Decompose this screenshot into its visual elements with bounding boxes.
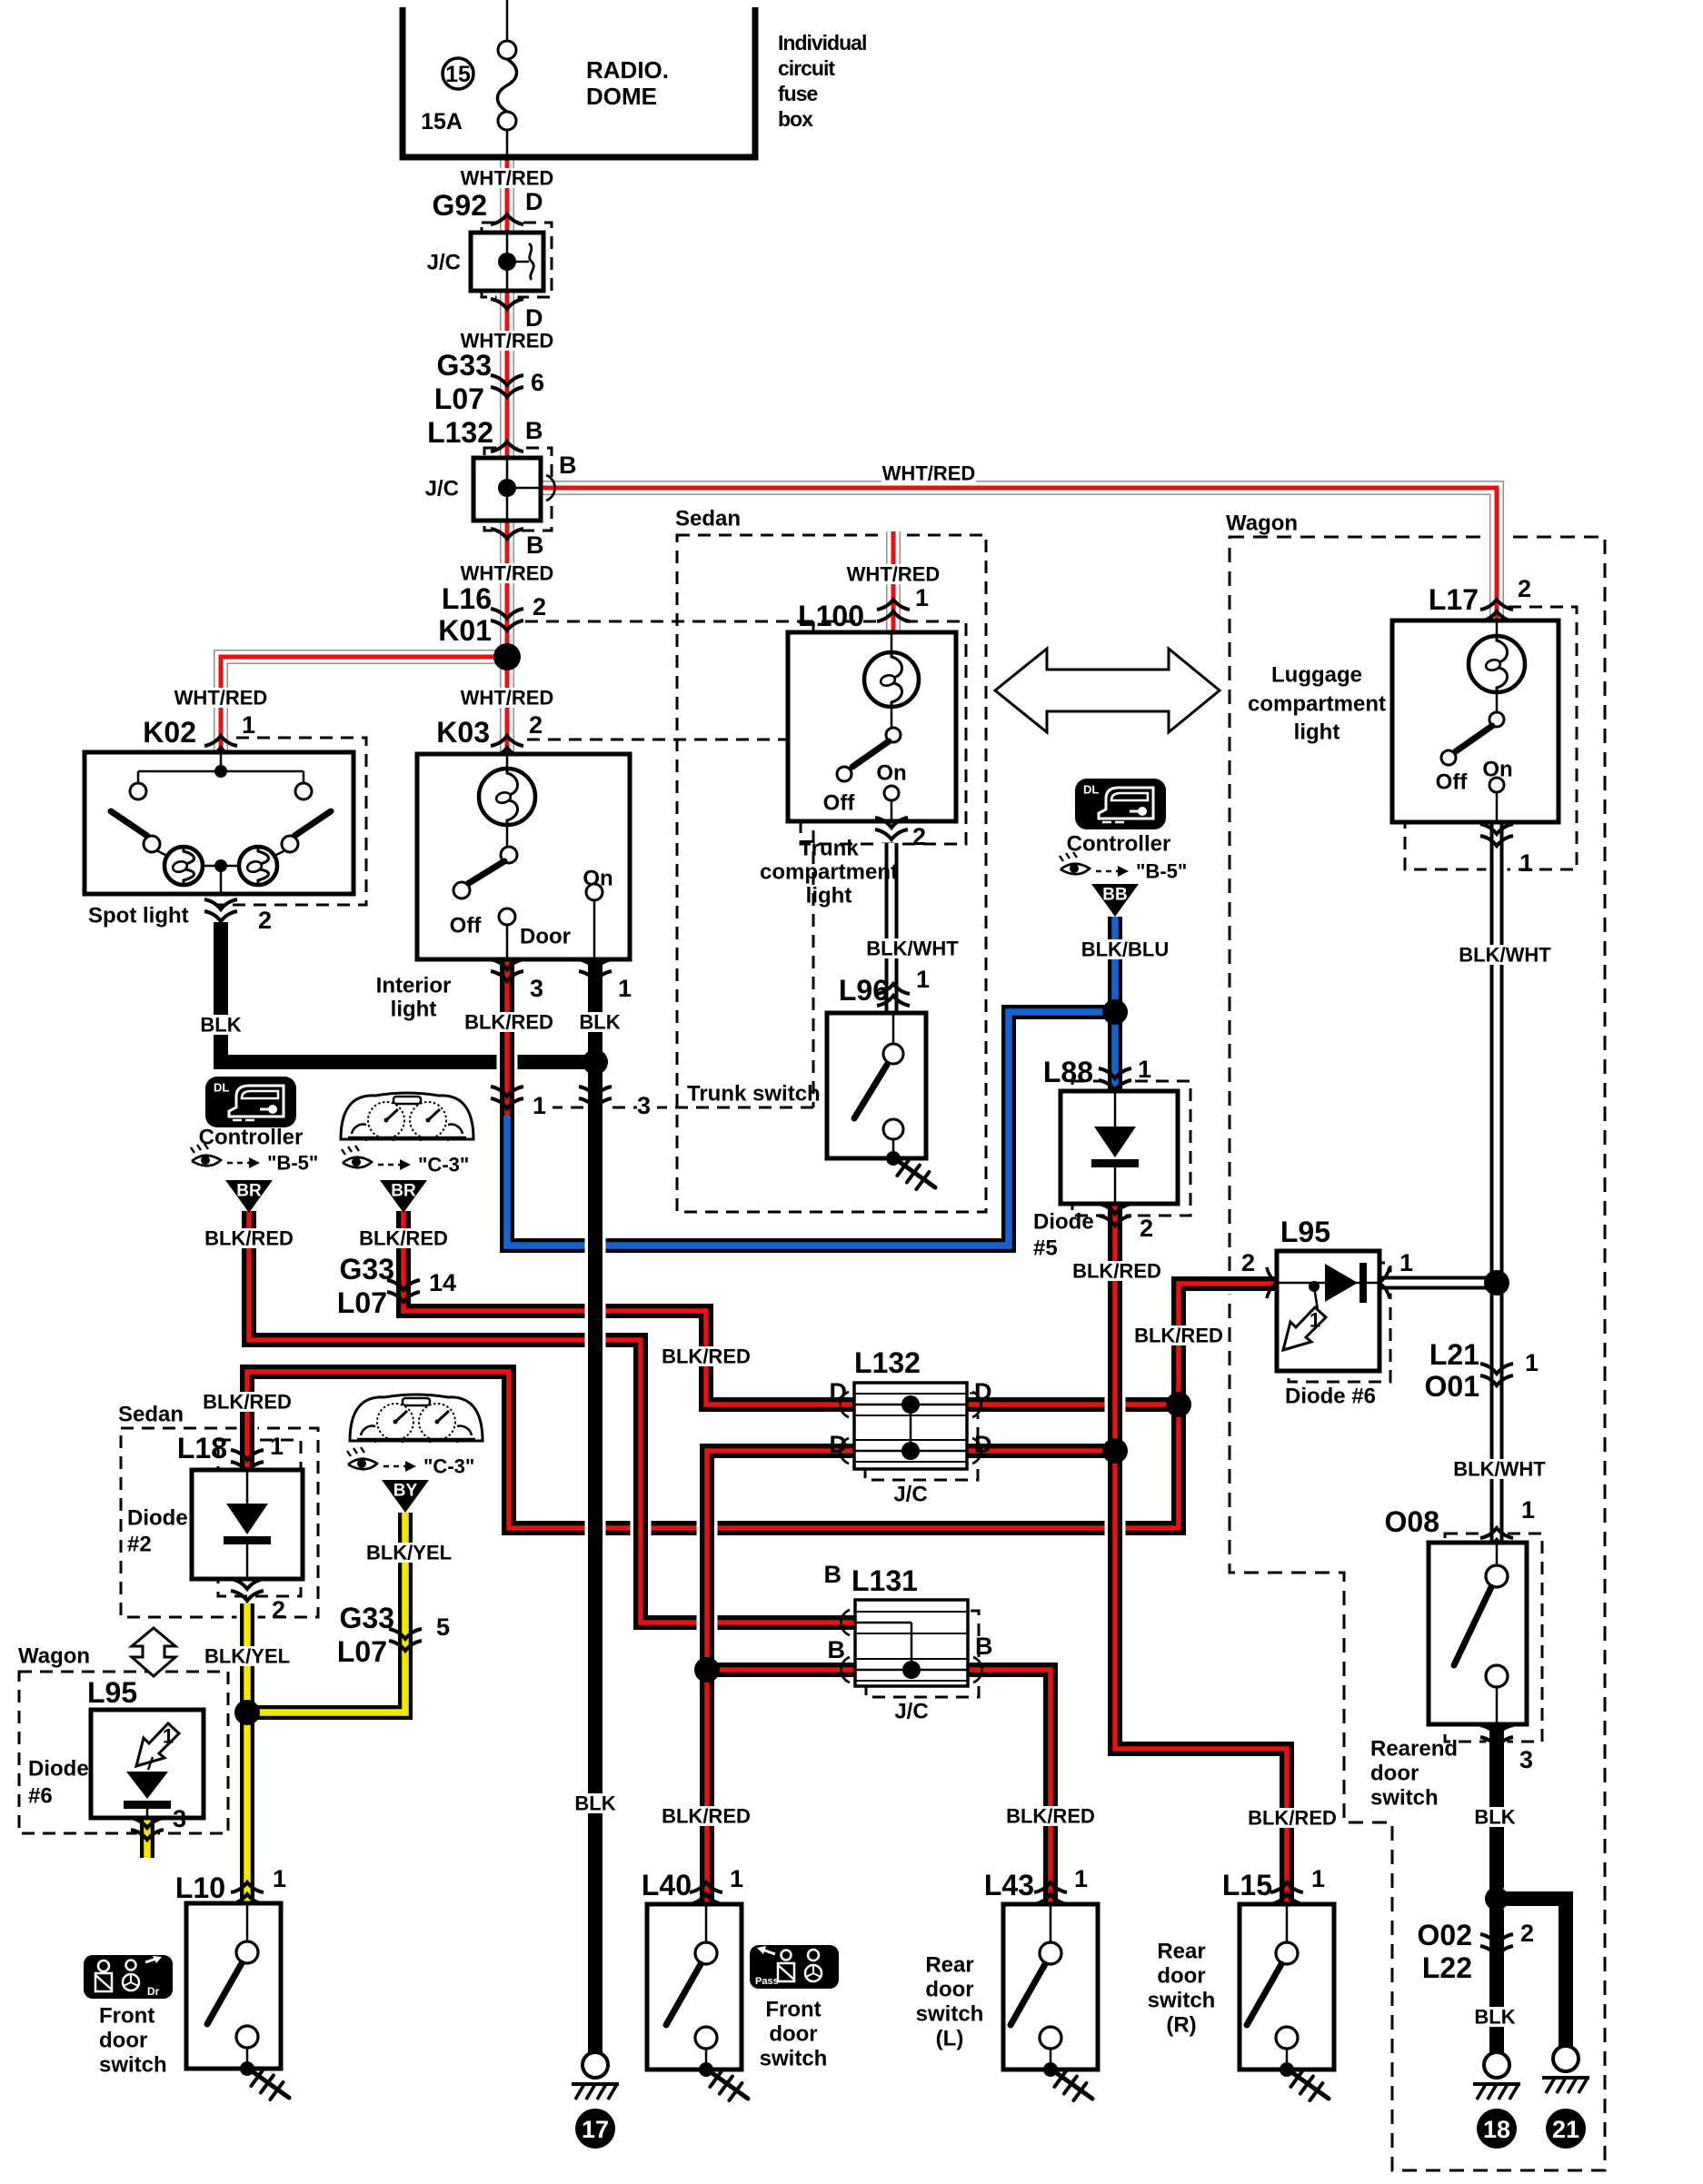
label BLK/RED <box>204 1228 294 1248</box>
svg-text:L17: L17 <box>1429 583 1479 616</box>
svg-text:"B-5": "B-5" <box>1136 860 1187 883</box>
svg-text:Interior: Interior <box>376 974 452 998</box>
svg-text:Diode: Diode <box>1033 1210 1094 1235</box>
svg-text:WHT/RED: WHT/RED <box>461 562 554 585</box>
svg-text:DL: DL <box>214 1081 229 1095</box>
svg-text:Spot light: Spot light <box>88 904 189 928</box>
svg-text:B: B <box>559 452 577 479</box>
label WHT/RED on line to L17 <box>881 463 976 483</box>
svg-text:Sedan: Sedan <box>118 1403 184 1427</box>
icon combination meter 2 <box>350 1395 483 1441</box>
connector chevrons L100 pin 2 <box>875 818 908 828</box>
wire BLK/WHT L17 pin1 to O08 <box>1487 822 1508 1543</box>
wire BLK O08 pin3 to ground 18 <box>1487 1724 1508 2052</box>
Sedan/Wagon vertical double arrow <box>132 1628 175 1676</box>
ground 17 <box>583 2052 608 2078</box>
svg-text:G33: G33 <box>340 1253 394 1286</box>
node BLK/RED junction L132 upper row/L18 branch <box>1166 1392 1191 1417</box>
svg-text:B: B <box>525 417 543 444</box>
svg-text:Rear: Rear <box>1157 1940 1205 1964</box>
svg-text:Luggage: Luggage <box>1271 663 1362 688</box>
spot light lamp right <box>239 847 277 885</box>
label BLK/RED <box>661 1346 752 1366</box>
open arrow with 1 (L95 right) <box>1283 1307 1326 1350</box>
svg-text:Rear: Rear <box>925 1953 973 1978</box>
svg-text:J/C: J/C <box>425 477 459 501</box>
svg-text:L16: L16 <box>442 582 492 615</box>
svg-text:B: B <box>526 531 544 559</box>
rear door switch L43 box <box>1003 1904 1098 2070</box>
svg-text:1: 1 <box>1311 1865 1325 1892</box>
wire BLK/WHT L100 pin2 to L96 trunk switch <box>881 843 902 1013</box>
svg-text:switch: switch <box>916 2002 984 2027</box>
individual circuit fuse box outline <box>403 7 755 157</box>
spot light right switch blade <box>294 811 331 836</box>
connector chevrons harness pin 1 <box>491 1087 523 1097</box>
svg-text:BLK/WHT: BLK/WHT <box>1459 944 1551 967</box>
connector chevrons O08 pin 3 <box>1480 1725 1513 1735</box>
ground 18 <box>1484 2052 1509 2078</box>
wire BLK/RED L132 middle J/C upper right pin D <box>967 1395 1179 1415</box>
svg-text:1: 1 <box>1138 1056 1151 1083</box>
svg-text:BY: BY <box>393 1482 418 1501</box>
wire BLK/RED K03 pin3 <box>497 959 518 1116</box>
svg-text:Wagon: Wagon <box>1226 511 1298 536</box>
wire BLK branch to ground 21 <box>1497 1899 1566 2046</box>
svg-text:#5: #5 <box>1033 1236 1058 1261</box>
wire WHT/RED branch to K02 <box>221 657 507 752</box>
svg-text:1: 1 <box>915 584 929 611</box>
connector chevron G92 D <box>491 214 523 224</box>
svg-text:BLK/RED: BLK/RED <box>204 1227 294 1250</box>
svg-text:L95: L95 <box>1280 1216 1330 1248</box>
svg-text:2: 2 <box>912 823 926 850</box>
diode #2 symbol <box>226 1504 268 1534</box>
svg-text:BLK/RED: BLK/RED <box>1134 1325 1223 1347</box>
svg-text:Off: Off <box>450 914 483 938</box>
connector chevrons L43 pin 1 <box>1034 1882 1067 1892</box>
wire WHT/RED feed to L100 trunk light <box>883 531 904 632</box>
diode #6 L95 wagon box <box>91 1710 204 1818</box>
svg-text:BB: BB <box>1102 886 1127 905</box>
interior light K03 box <box>417 754 630 959</box>
rear door switch L15 box <box>1240 1904 1334 2070</box>
diode #6 L95 right box <box>1277 1251 1379 1371</box>
connector chevrons L17 pin 2 <box>1480 600 1513 610</box>
node BLK junction K02/K03 grounds <box>583 1049 608 1075</box>
svg-text:3: 3 <box>530 975 543 1002</box>
svg-text:21: 21 <box>1552 2116 1579 2143</box>
connector chevrons G33/L07 pin 6 <box>491 375 523 385</box>
Wagon (diode #6) dashed box <box>19 1672 228 1833</box>
label WHT/RED <box>174 688 268 708</box>
svg-text:1: 1 <box>273 1865 286 1892</box>
svg-text:Trunk: Trunk <box>799 837 859 861</box>
label WHT/RED <box>460 688 554 708</box>
connector L100 dashed outline <box>801 621 966 844</box>
connector chevrons L15 pin 1 <box>1270 1882 1303 1892</box>
connector L16/K01-K03 dashed outline <box>525 620 813 623</box>
svg-text:L18: L18 <box>177 1432 227 1464</box>
L43 switch blade <box>1011 1964 1045 2025</box>
label BLK/WHT <box>1455 945 1555 965</box>
svg-text:#6: #6 <box>28 1784 53 1809</box>
svg-text:L132: L132 <box>854 1346 921 1379</box>
label BLK/YEL <box>364 1543 454 1563</box>
ground 21 <box>1553 2046 1579 2071</box>
svg-text:2: 2 <box>258 907 272 934</box>
trunk light lamp <box>864 652 919 707</box>
svg-text:door: door <box>99 2029 147 2053</box>
diode #6 wagon symbol <box>126 1772 168 1799</box>
svg-text:light: light <box>1294 720 1340 745</box>
connector chevrons O02/L22 pin 2 <box>1480 1934 1513 1944</box>
label BLK/RED <box>202 1392 293 1412</box>
svg-text:BLK/YEL: BLK/YEL <box>204 1645 290 1668</box>
wire BLK K02 pin2 to junction <box>221 922 595 1062</box>
svg-text:(L): (L) <box>936 2027 964 2051</box>
svg-text:1: 1 <box>1521 1496 1535 1524</box>
fuse 15 (15A RADIO. DOME) <box>506 0 509 41</box>
connector chevron G92 D out <box>491 299 523 309</box>
label WHT/RED <box>460 563 554 583</box>
svg-text:2: 2 <box>1241 1249 1255 1276</box>
connector chevrons L40 pin 1 <box>690 1882 722 1892</box>
label BLK/RED <box>1071 1261 1162 1281</box>
svg-text:BLK/RED: BLK/RED <box>1248 1807 1337 1830</box>
trunk light switch blade <box>852 741 889 767</box>
label BLK/WHT <box>862 938 962 958</box>
trunk compartment light L100 box <box>788 632 956 821</box>
svg-text:L07: L07 <box>434 382 484 415</box>
spot light left switch blade <box>111 811 147 836</box>
svg-text:L21: L21 <box>1429 1338 1479 1371</box>
connector chevrons L18 pin 1 <box>231 1450 264 1460</box>
eye reference C-3 <box>343 1157 372 1168</box>
svg-text:D: D <box>974 1431 992 1458</box>
svg-text:Door: Door <box>520 925 571 949</box>
svg-text:L07: L07 <box>337 1286 387 1319</box>
svg-text:1: 1 <box>1074 1865 1088 1892</box>
svg-text:Front: Front <box>765 1998 821 2022</box>
svg-text:BLK/RED: BLK/RED <box>203 1391 292 1414</box>
svg-text:switch: switch <box>99 2053 167 2078</box>
svg-text:L96: L96 <box>839 974 889 1007</box>
ground chassis L96 <box>897 1160 935 1187</box>
svg-text:K01: K01 <box>438 614 492 647</box>
wire BLK/RED L88 pin2 to L15 <box>1115 1204 1287 1904</box>
svg-text:Dr: Dr <box>147 1985 160 1998</box>
label WHT/RED <box>846 564 941 584</box>
connector BY triangle <box>382 1480 429 1513</box>
icon front door switch driver <box>84 1955 173 1999</box>
front door switch L10 box <box>186 1903 281 2069</box>
svg-text:L07: L07 <box>337 1635 387 1668</box>
label WHT/RED <box>460 331 554 351</box>
connector chevrons O08 pin 1 <box>1480 1528 1513 1538</box>
svg-text:WHT/RED: WHT/RED <box>882 462 976 485</box>
svg-text:18: 18 <box>1483 2116 1510 2143</box>
svg-text:(R): (R) <box>1166 2013 1196 2038</box>
label BLK/BLU <box>1077 939 1173 959</box>
svg-text:D: D <box>525 304 543 332</box>
svg-text:3: 3 <box>1519 1746 1533 1773</box>
label BLK/YEL <box>202 1646 293 1666</box>
junction connector L131 J/C box <box>855 1600 968 1686</box>
svg-text:O08: O08 <box>1385 1505 1439 1538</box>
svg-text:L132: L132 <box>427 416 493 449</box>
svg-text:Diode: Diode <box>28 1757 89 1782</box>
trunk switch blade <box>854 1065 887 1118</box>
L15 switch blade <box>1247 1964 1281 2025</box>
icon front door switch passenger <box>750 1945 839 1989</box>
svg-text:1: 1 <box>163 1725 174 1748</box>
svg-text:BLK: BLK <box>1474 2006 1515 2029</box>
svg-text:door: door <box>925 1978 973 2002</box>
svg-text:J/C: J/C <box>427 251 461 275</box>
connector O08 dashed outline <box>1445 1534 1542 1742</box>
wire BLK/RED L132 middle J/C lower right pin D <box>967 1441 1115 1462</box>
junction connector G92 J/C box <box>471 233 543 291</box>
svg-text:BLK: BLK <box>579 1011 620 1034</box>
luggage light switch blade <box>1456 726 1492 751</box>
node BLK/RED junction L40/L131 <box>694 1657 720 1683</box>
connector chevrons harness pin 3 <box>579 1087 612 1097</box>
svg-text:K03: K03 <box>436 716 490 749</box>
svg-text:Off: Off <box>823 791 856 816</box>
ground number 18 <box>1477 2109 1517 2149</box>
svg-text:2: 2 <box>1518 575 1531 602</box>
svg-text:L131: L131 <box>851 1564 918 1597</box>
svg-text:1: 1 <box>270 1433 284 1460</box>
label BLK/RED <box>1247 1808 1338 1828</box>
svg-text:B: B <box>975 1633 993 1660</box>
svg-text:14: 14 <box>429 1269 456 1296</box>
connector L132 dashed outline (top J/C) <box>484 448 552 531</box>
svg-text:Trunk switch: Trunk switch <box>687 1082 821 1107</box>
svg-text:1: 1 <box>1519 849 1533 877</box>
svg-text:Controller: Controller <box>199 1126 304 1150</box>
icon controller (door lock) <box>1075 779 1166 829</box>
svg-text:17: 17 <box>582 2116 609 2143</box>
node WHT/RED junction L16/K01 <box>493 643 521 670</box>
front door switch L40 box <box>647 1904 742 2070</box>
svg-text:Off: Off <box>1436 770 1469 795</box>
ground chassis L40 <box>710 2071 748 2099</box>
svg-text:1: 1 <box>242 711 255 739</box>
connector chevrons K03 pin 1 <box>579 959 612 969</box>
L10 switch blade <box>207 1963 242 2024</box>
diode #5 symbol <box>1094 1127 1136 1157</box>
svg-text:D: D <box>525 188 543 215</box>
svg-text:2: 2 <box>529 711 543 739</box>
Wagon section dashed outline <box>1230 537 1605 2170</box>
contact On <box>586 884 603 900</box>
label BLK <box>573 1793 618 1813</box>
svg-text:BLK: BLK <box>574 1792 615 1815</box>
connector chevrons G33/L07 pin 5 <box>389 1629 422 1639</box>
svg-text:switch: switch <box>1148 1989 1216 2013</box>
svg-text:WHT/RED: WHT/RED <box>174 687 268 710</box>
svg-text:light: light <box>806 884 852 908</box>
svg-text:3: 3 <box>637 1092 651 1119</box>
svg-text:L95: L95 <box>87 1676 137 1709</box>
ground chassis L43 <box>1054 2071 1092 2099</box>
ground chassis L10 <box>251 2070 289 2098</box>
svg-text:"B-5": "B-5" <box>267 1152 318 1175</box>
svg-text:switch: switch <box>760 2047 828 2071</box>
eye reference B-5 left <box>192 1156 221 1166</box>
junction connector L132 J/C box (top) <box>473 458 541 521</box>
svg-text:BLK/RED: BLK/RED <box>359 1227 448 1250</box>
connector BB triangle <box>1091 884 1139 917</box>
label BLK/RED <box>463 1012 554 1032</box>
connector BR triangle left <box>225 1180 273 1213</box>
svg-text:1: 1 <box>730 1865 743 1892</box>
icon combination meter <box>341 1093 473 1139</box>
wire BLK/YEL L95 diode#6 pin3 stub <box>137 1818 158 1858</box>
ground number 21 <box>1546 2109 1586 2149</box>
svg-text:1: 1 <box>533 1092 546 1119</box>
svg-text:G33: G33 <box>437 349 492 382</box>
Sedan (diode #2) dashed box <box>121 1428 318 1617</box>
svg-text:1: 1 <box>1310 1309 1320 1332</box>
svg-text:#2: #2 <box>127 1533 152 1557</box>
svg-text:2: 2 <box>533 593 546 620</box>
svg-text:L15: L15 <box>1222 1869 1272 1901</box>
Sedan/Wagon horizontal double arrow <box>995 649 1220 732</box>
connector chevrons L96 pin 1 <box>877 984 910 994</box>
label WHT/RED <box>460 168 554 188</box>
svg-text:door: door <box>1370 1762 1419 1786</box>
wire BLK/YEL meter C-3 via G33/L07-5 <box>247 1513 405 1712</box>
svg-text:BLK/RED: BLK/RED <box>662 1805 751 1828</box>
svg-text:compartment: compartment <box>760 860 898 885</box>
label BLK <box>577 1012 622 1032</box>
svg-text:J/C: J/C <box>894 1700 928 1724</box>
L40 switch blade <box>666 1964 701 2025</box>
svg-text:BLK/BLU: BLK/BLU <box>1081 938 1170 961</box>
node BLK/BLU junction <box>1102 999 1128 1025</box>
svg-text:BLK: BLK <box>200 1014 241 1037</box>
svg-text:BLK: BLK <box>1474 1806 1515 1829</box>
svg-text:1: 1 <box>916 966 930 993</box>
svg-text:L88: L88 <box>1043 1056 1093 1088</box>
diode #6 right symbol <box>1325 1264 1358 1302</box>
svg-text:Front: Front <box>99 2004 154 2029</box>
svg-text:WHT/RED: WHT/RED <box>461 687 554 710</box>
svg-text:RADIO.: RADIO. <box>586 56 669 84</box>
spot light K02 box <box>85 752 354 894</box>
svg-text:BR: BR <box>391 1182 416 1201</box>
svg-text:BLK/RED: BLK/RED <box>1072 1260 1161 1283</box>
connector L18 dashed outline <box>218 1440 301 1596</box>
svg-text:15: 15 <box>445 62 471 87</box>
svg-text:Diode #6: Diode #6 <box>1285 1385 1376 1409</box>
wire BLK/BLU controller BB to L88 pin1 <box>1105 917 1126 1091</box>
connector L88 dashed outline <box>1072 1081 1190 1216</box>
svg-text:door: door <box>1157 1964 1205 1989</box>
svg-text:Wagon: Wagon <box>18 1644 90 1669</box>
svg-text:On: On <box>876 761 906 786</box>
wire BLK/WHT L95 diode#6 pin1 to junction <box>1379 1273 1497 1294</box>
wire BLK/BLU K03 door pin to controller/L88 <box>507 1012 1115 1246</box>
connector chevrons G33/L07 pin 14 <box>387 1280 420 1290</box>
svg-text:O02: O02 <box>1418 1919 1472 1951</box>
svg-text:fuse: fuse <box>778 82 818 105</box>
luggage compartment light L17 box <box>1392 620 1559 822</box>
connector chevrons L10 pin 1 <box>231 1882 264 1892</box>
contact Door <box>499 908 515 925</box>
Sedan section dashed box <box>677 535 986 1212</box>
wire WHT/RED L132 J/C to node to K03 <box>497 521 518 754</box>
svg-text:Individual: Individual <box>778 31 866 55</box>
connector chevrons L88 pin 1 <box>1099 1068 1131 1078</box>
label BLK <box>198 1015 244 1035</box>
connector chevrons L95 pin 3 <box>131 1818 164 1828</box>
svg-text:L43: L43 <box>984 1869 1034 1901</box>
svg-text:J/C: J/C <box>893 1483 927 1507</box>
svg-text:L10: L10 <box>175 1871 225 1904</box>
connector chevron L95 pin 2 <box>1267 1267 1277 1298</box>
luggage light lamp <box>1469 636 1525 692</box>
connector G92 dashed outline <box>482 223 552 297</box>
svg-text:switch: switch <box>1370 1786 1439 1811</box>
svg-text:circuit: circuit <box>778 56 835 80</box>
diode #5 L88 box <box>1061 1091 1178 1204</box>
svg-text:light: light <box>391 998 437 1022</box>
wire WHT/RED G92 to L132 J/C <box>497 291 518 458</box>
label BLK <box>1472 1807 1518 1827</box>
svg-text:3: 3 <box>173 1805 186 1832</box>
interior light switch blade <box>469 861 504 883</box>
wire BLK K03 pin1 to ground 17 <box>585 959 606 2052</box>
ground chassis L15 <box>1290 2071 1329 2099</box>
svg-text:"C-3": "C-3" <box>418 1154 469 1176</box>
label BLK/RED <box>358 1228 449 1248</box>
connector chevrons L18 pin 2 <box>231 1579 264 1589</box>
connector K02 dashed outline <box>218 738 366 905</box>
label BLK/RED <box>661 1806 752 1826</box>
svg-text:B: B <box>824 1561 842 1588</box>
svg-text:door: door <box>769 2022 817 2047</box>
svg-text:L40: L40 <box>642 1869 692 1901</box>
svg-text:L100: L100 <box>798 600 864 632</box>
eye reference B-5 <box>1061 864 1090 875</box>
wire BLK/RED L18 pin1 to L132 upper row / L95 diode#6 feed <box>247 1284 1277 1528</box>
svg-text:box: box <box>778 107 813 131</box>
svg-text:BLK/YEL: BLK/YEL <box>366 1542 452 1564</box>
svg-text:5: 5 <box>436 1613 450 1641</box>
node BLK/RED junction L88/L132 lower row <box>1102 1438 1128 1464</box>
svg-text:G33: G33 <box>340 1602 394 1634</box>
connector chevrons K03 pin 2 <box>491 736 523 746</box>
connector chevrons K02 pin 2 <box>204 899 237 909</box>
O08 switch blade <box>1454 1587 1491 1665</box>
svg-text:2: 2 <box>272 1596 285 1623</box>
svg-text:BLK/WHT: BLK/WHT <box>866 938 959 960</box>
svg-text:1: 1 <box>1399 1249 1413 1276</box>
svg-text:K02: K02 <box>143 716 196 749</box>
connector chevrons L21/O01 pin 1 <box>1480 1364 1513 1374</box>
wire BLK/YEL L18 pin2 to L10 <box>237 1603 258 1904</box>
eye reference C-3 lower <box>348 1459 377 1470</box>
svg-text:2: 2 <box>1520 1920 1534 1947</box>
wire BLK/RED L131 lower right pin B to L43 <box>968 1670 1051 1904</box>
svg-text:compartment: compartment <box>1248 692 1386 717</box>
node BLK/YEL junction <box>234 1700 260 1725</box>
svg-text:D: D <box>830 1431 848 1458</box>
